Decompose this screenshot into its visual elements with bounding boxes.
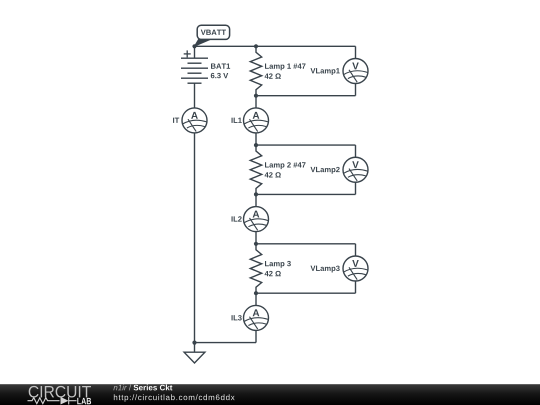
label Lamp 1 #47 <box>265 63 306 70</box>
logo resistor-diode squiggle <box>28 397 77 405</box>
node lamp2 bottom <box>254 192 258 196</box>
wire lamp3 top rail <box>256 243 356 245</box>
wire top rail from battery to VLamp1 <box>195 45 356 47</box>
ammeter IL1 <box>244 108 269 133</box>
wire IL2 bottom lead <box>255 232 257 244</box>
wire VLamp1 top lead <box>355 46 357 58</box>
voltmeter VLamp2 <box>343 157 368 182</box>
label 42 ohm lamp2 <box>265 172 281 177</box>
resistor Lamp 2 #47 <box>250 145 261 194</box>
wire battery top lead <box>194 46 196 58</box>
wire VLamp3 bottom lead <box>355 281 357 293</box>
label VLamp1 <box>310 68 339 75</box>
label BAT1 <box>211 63 230 68</box>
wire lamp2 bottom rail <box>256 193 356 195</box>
node VBATT junction <box>192 44 196 48</box>
node lamp1 top <box>254 44 258 48</box>
node lamp2 top <box>254 143 258 147</box>
label VLamp2 <box>310 167 339 174</box>
wire IL1 top lead <box>255 96 257 108</box>
label VLamp3 <box>310 266 339 273</box>
label IL2 <box>232 216 242 221</box>
wire IL2 top lead <box>255 194 257 206</box>
footer title separator <box>129 385 131 391</box>
voltmeter VLamp1 <box>343 59 368 84</box>
wire lamp2 top rail <box>256 144 356 146</box>
label IL3 <box>232 315 242 320</box>
label IL1 <box>232 118 242 123</box>
wire lamp1 bottom rail <box>256 95 356 97</box>
node lamp1 bottom <box>254 94 258 98</box>
node lamp3 top <box>254 242 258 246</box>
ammeter IL3 <box>244 305 269 330</box>
logo CIRCUIT <box>29 386 91 398</box>
resistor Lamp 3 <box>250 244 261 293</box>
label 6.3 V <box>211 73 228 78</box>
resistor Lamp 1 #47 <box>250 46 261 95</box>
label 42 ohm lamp3 <box>265 271 281 276</box>
label 42 ohm lamp1 <box>265 73 281 78</box>
wire bottom return rail <box>195 342 257 344</box>
wire ammeter IT to ground rail <box>194 133 196 343</box>
label IT <box>173 118 179 123</box>
ammeter IT <box>182 108 207 133</box>
wire lamp3 bottom rail <box>256 292 356 294</box>
wire VLamp3 top lead <box>355 244 357 256</box>
battery BAT1 <box>181 50 208 83</box>
logo LAB <box>77 398 91 404</box>
node ground junction <box>192 341 196 345</box>
label Lamp 3 <box>265 261 291 268</box>
wire IL3 bottom lead <box>255 330 257 342</box>
net flag VBATT <box>194 25 229 46</box>
wire VLamp2 top lead <box>355 145 357 157</box>
footer title n1ir <box>113 385 126 391</box>
wire battery to ammeter IT <box>194 83 196 108</box>
label Lamp 2 #47 <box>265 162 306 169</box>
footer title Series Ckt <box>134 385 173 391</box>
wire VLamp2 bottom lead <box>355 182 357 194</box>
wire IL3 top lead <box>255 293 257 305</box>
voltmeter VLamp3 <box>343 256 368 281</box>
wire VLamp1 bottom lead <box>355 84 357 96</box>
node lamp3 bottom <box>254 291 258 295</box>
ground <box>184 343 205 363</box>
footer url <box>114 394 235 401</box>
wire IL1 bottom lead <box>255 133 257 145</box>
ammeter IL2 <box>244 207 269 232</box>
